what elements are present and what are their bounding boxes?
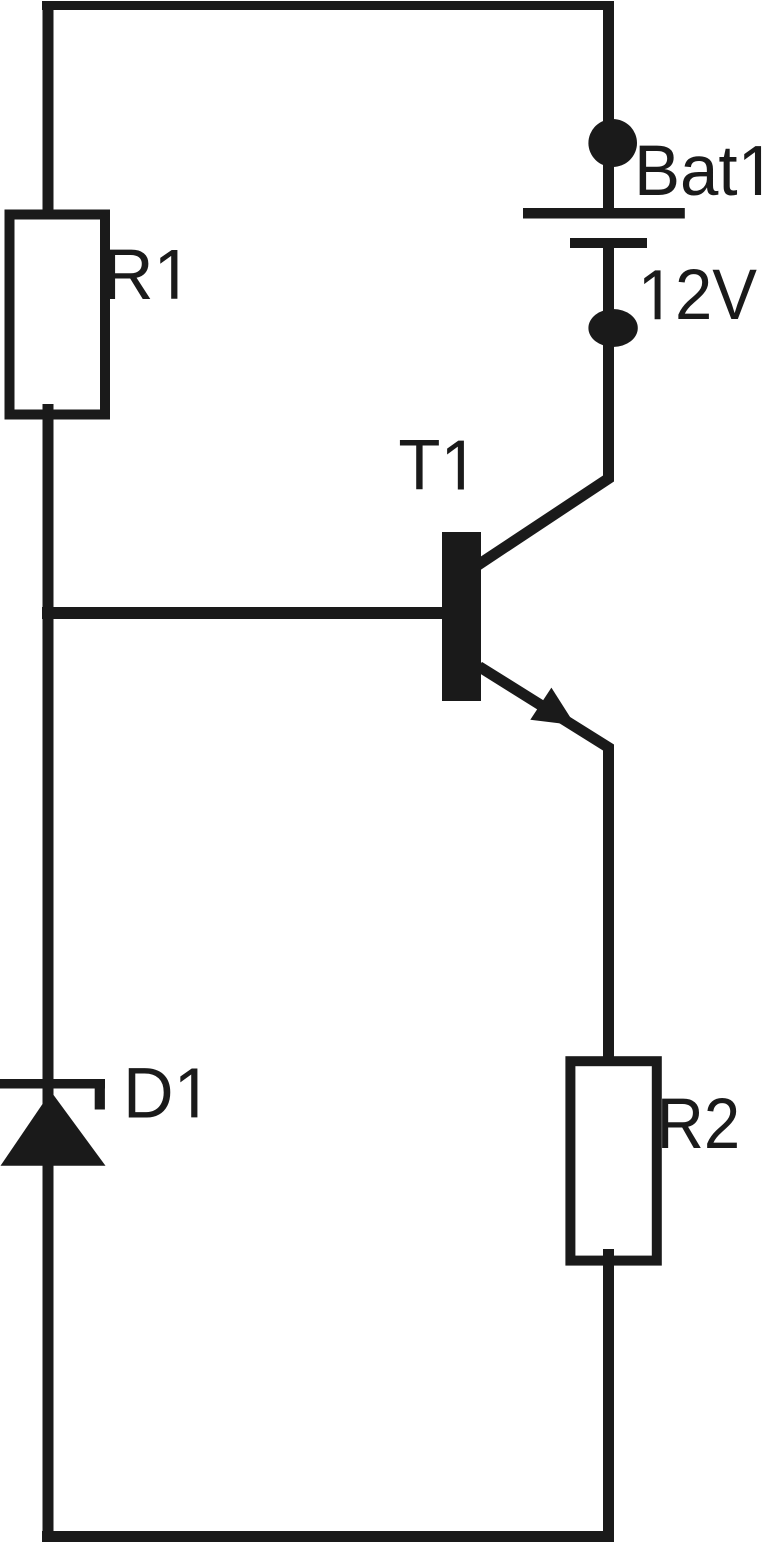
wire left lower (R1 to bottom rail, through D1) [43,404,54,1537]
battery Bat1 terminal dot upper [588,119,637,167]
svg-text:Bat: Bat [634,131,738,210]
label 12V [644,254,757,334]
wire top [42,1,614,10]
resistor R2 body [570,1061,656,1260]
battery Bat1 positive plate [523,208,685,219]
wire right upper (top rail to battery) [603,1,614,212]
battery Bat1 negative plate [570,238,647,248]
label T1 [398,426,464,505]
wire emitter run to R2 [479,667,609,1066]
transistor T1 base bar [442,532,481,701]
diode D1 anode triangle [1,1092,106,1166]
diode D1 cathode bar [0,1079,105,1089]
svg-text:D: D [123,1053,174,1133]
transistor T1 emitter arrowhead [530,688,575,726]
wire left upper (top rail to R1) [43,1,54,217]
wire base (left rail to T1) [42,607,443,619]
diode D1 cathode hook [95,1088,105,1110]
label R1 [103,235,178,314]
label Bat1 [634,131,761,210]
wire bottom [42,1531,614,1542]
resistor R1 body [10,215,106,415]
svg-text:T: T [398,426,440,505]
wire battery to collector corner [478,243,609,565]
svg-text:2V: 2V [675,254,757,334]
svg-text:R: R [103,235,154,314]
battery Bat1 terminal dot lower [588,309,637,347]
wire right lower (R2 to bottom rail) [603,1249,614,1537]
label D1 [123,1053,197,1133]
svg-text:R2: R2 [657,1085,740,1164]
